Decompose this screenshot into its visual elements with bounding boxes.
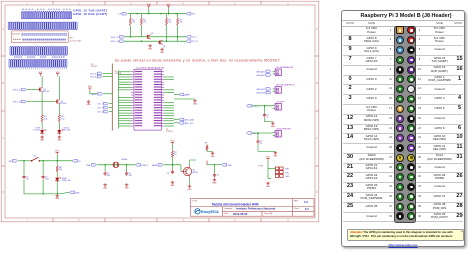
connector J3 40-pin box <box>11 31 68 43</box>
capacitor C4 <box>172 165 174 170</box>
MOSFET Q5 <box>38 89 39 91</box>
schematic sheet frame <box>1 1 319 222</box>
net flag ICP_1 <box>103 102 108 105</box>
svg-text:GND: GND <box>57 140 62 142</box>
net flag GEN_AD1 <box>266 70 271 73</box>
net flag VOL_B <box>97 72 102 75</box>
wire VCC to Q5 <box>41 76 43 87</box>
net flag PPS_1 <box>247 105 252 108</box>
svg-text:FTDI: FTDI <box>259 165 264 167</box>
net flag XTAL_2 <box>136 164 141 167</box>
header J8 pin 1 (3.3 VDC) <box>396 26 404 34</box>
net flag TTL_R right <box>186 40 191 43</box>
net flag 5V right <box>72 160 77 163</box>
svg-text:GEN_SD2: GEN_SD2 <box>256 93 265 95</box>
wire VIN to switch <box>18 160 30 162</box>
MCU pin stubs and names <box>131 71 134 73</box>
svg-text:10u: 10u <box>26 179 29 181</box>
net flag ADC_SCL <box>179 122 184 125</box>
net flag TTL right <box>186 12 191 15</box>
net flag VIN <box>13 160 18 163</box>
resistor R2 <box>140 17 142 26</box>
ground R9 <box>212 152 214 154</box>
svg-text:ADC_SDA: ADC_SDA <box>185 119 195 122</box>
wire base rail <box>164 164 181 166</box>
net flag GPIO_16 row <box>120 40 125 43</box>
svg-text:C: C <box>316 137 318 140</box>
net flag ICP_3 <box>103 110 108 113</box>
capacitor C7 <box>264 106 266 113</box>
capacitor C9 <box>206 161 208 165</box>
net flag AVCC <box>98 93 103 96</box>
header J8 pin 24 (GPIO 10) <box>407 134 415 142</box>
ground C8 <box>274 151 276 153</box>
header J8 pin 22 (GPIO 6) <box>407 124 415 132</box>
svg-text:S1: S1 <box>34 155 36 157</box>
net flag GEN_SD1 <box>266 88 271 91</box>
net flag GPIO_15 row <box>120 36 125 39</box>
header J8 pin 29 (GPIO 21) <box>396 163 404 171</box>
svg-text:REV:: REV: <box>294 201 299 203</box>
net flag BASE <box>158 164 163 167</box>
svg-text:ICP_1: ICP_1 <box>98 104 103 106</box>
header J8 pin 40 (GPIO 29) <box>407 212 415 220</box>
svg-text:PPS_1: PPS_1 <box>252 106 258 108</box>
net flag GEN_AD2 <box>266 74 271 77</box>
svg-text:GND: GND <box>55 198 60 200</box>
wire gate2 <box>27 101 55 103</box>
svg-text:GND: GND <box>40 140 45 142</box>
net flag TTL_T right <box>186 36 191 39</box>
header J8 pin 4 (5.0 VDC) <box>407 36 415 44</box>
svg-text:R9: R9 <box>205 143 207 145</box>
svg-text:GPIO_13: GPIO_13 <box>13 102 21 104</box>
connector bank row 1 (J1 pins) <box>22 12 23 19</box>
resistor R4 <box>176 17 178 26</box>
svg-text:1.0k: 1.0k <box>61 118 64 120</box>
row 3 under-labels <box>14 56 16 59</box>
ground mcu right <box>174 98 195 100</box>
header J8 pin 14 (Ground) <box>407 85 415 93</box>
svg-text:U5 GENERADOR: U5 GENERADOR <box>276 66 293 69</box>
MCU left pin wires <box>119 71 132 73</box>
header J8 pin 21 (GPIO 13) <box>396 124 404 132</box>
svg-text:VOL_A: VOL_A <box>90 76 97 79</box>
row 4 pin dots <box>9 67 12 70</box>
header J8 pin 33 (GPIO 23) <box>396 183 404 191</box>
header J8 pin 9 (Ground) <box>396 66 404 74</box>
MOSFET Q6 <box>55 101 56 103</box>
svg-text:GND: GND <box>285 176 290 178</box>
MOSFET Q3 <box>146 36 147 38</box>
svg-text:GPIO_16 RxD (UART): GPIO_16 RxD (UART) <box>73 12 107 16</box>
header J8 pin 38 (GPIO 28) <box>407 203 415 211</box>
header J8 pin 11 (GPIO 0) <box>396 75 404 83</box>
svg-text:1.0k: 1.0k <box>44 118 47 120</box>
net flag VOL_A <box>97 75 102 78</box>
connector bank row 3 (J4 pins) <box>10 47 11 56</box>
svg-text:Tarjeta microcontrolador AVR: Tarjeta microcontrolador AVR <box>212 202 260 206</box>
wire Q5 to R5 <box>41 92 43 114</box>
svg-text:10k: 10k <box>168 22 171 24</box>
svg-text:1n: 1n <box>267 117 269 119</box>
header J8 pin 35 (GPIO 24) <box>396 193 404 201</box>
svg-text:10k: 10k <box>143 22 146 24</box>
capacitor C1 <box>23 161 25 175</box>
header J8 pin 16 (GPIO 4) <box>407 95 415 103</box>
svg-text:33p: 33p <box>107 175 110 177</box>
ground Q3 <box>149 44 151 46</box>
svg-text:C: C <box>2 137 4 140</box>
svg-text:GND: GND <box>148 48 153 50</box>
svg-text:GPIO_16: GPIO_16 <box>111 41 119 43</box>
svg-text:D: D <box>316 191 318 194</box>
header J8 pin 31 (GPIO 22) <box>396 173 404 181</box>
frame section ticks <box>52 1 54 5</box>
header J8 pin 13 (GPIO 2) <box>396 85 404 93</box>
ground C7 <box>272 122 274 124</box>
header J8 pin 32 (GPIO 26) <box>407 173 415 181</box>
resistor R6 <box>58 114 60 123</box>
svg-text:GND: GND <box>271 126 276 128</box>
ground LED9 <box>41 135 43 137</box>
ground C5 <box>104 183 106 185</box>
svg-text:EasyEDA: EasyEDA <box>201 209 219 214</box>
header J8 pin 7 (GPIO 7) <box>396 56 404 64</box>
svg-text:GEN_SD1: GEN_SD1 <box>256 89 265 91</box>
resistor R8 <box>56 161 58 165</box>
svg-text:BASE: BASE <box>152 164 158 167</box>
net flag AREF <box>179 93 184 96</box>
MCU right pin wires <box>164 76 174 78</box>
header J8 pin 5 (GPIO 9) <box>396 46 404 54</box>
svg-text:PWR_LED: PWR_LED <box>62 180 71 182</box>
capacitor C6 <box>126 165 128 171</box>
header J8 pin 30 (Ground) <box>407 163 415 171</box>
svg-text:Se puede utilizar un diodo sol: Se puede utilizar un diodo solamente y u… <box>115 58 280 62</box>
capacitor C2 <box>42 161 44 175</box>
header J8 pin 37 (GPIO 25) <box>396 203 404 211</box>
header J8 pin 12 (GPIO 1) <box>407 75 415 83</box>
svg-text:Sheet:: Sheet: <box>294 207 300 210</box>
header J8 pin 10 (GPIO 16) <box>407 66 415 74</box>
ground Q1 <box>189 185 191 187</box>
resistor R1 <box>129 17 131 26</box>
net flag HAL_4 <box>247 132 252 135</box>
header J8 pin 27 (SDA0) <box>396 154 404 162</box>
ground LED10 <box>58 135 60 137</box>
svg-text:Conector 40T: Conector 40T <box>69 40 82 43</box>
transistor Q1 BC547 <box>183 167 191 175</box>
svg-text:Drawn By:: Drawn By: <box>264 212 273 215</box>
wires resistor bottoms <box>129 26 131 37</box>
connector bank top labels <box>22 8 24 11</box>
net flag GPIO_12 <box>22 88 27 91</box>
svg-text:XTAL: XTAL <box>86 164 91 167</box>
svg-text:HAL_4: HAL_4 <box>252 132 258 135</box>
svg-text:10k: 10k <box>180 22 183 24</box>
header J8 pin 19 (GPIO 12) <box>396 115 404 123</box>
header J8 pin 39 (Ground) <box>396 212 404 220</box>
header J6 FTDI 2x3 <box>275 167 278 170</box>
resistor R7 <box>172 145 174 150</box>
svg-text:Date:: Date: <box>224 212 229 215</box>
header J8 pin 17 (3.3 VDC) <box>396 105 404 113</box>
svg-text:GPIO_12: GPIO_12 <box>13 90 21 92</box>
svg-text:VOL_B: VOL_B <box>90 73 97 75</box>
title block frame <box>191 199 315 217</box>
ground ftdi <box>267 182 269 184</box>
header J8 pin 20 (Ground) <box>407 115 415 123</box>
net flag GEN_SD2 <box>266 91 271 94</box>
wire switch rail <box>40 160 73 162</box>
ground C6 <box>126 183 128 185</box>
wire row GPIO_16 <box>125 40 187 42</box>
EasyEDA logo <box>195 209 200 214</box>
svg-text:GND: GND <box>212 183 217 185</box>
svg-text:BC547: BC547 <box>193 172 199 174</box>
ground Q4 <box>161 48 163 50</box>
svg-text:Q4: Q4 <box>163 46 165 48</box>
svg-text:TTL_T: TTL_T <box>192 37 198 39</box>
svg-text:U8 ALTIMETRO: U8 ALTIMETRO <box>276 127 292 130</box>
wire xtal rail <box>97 164 135 166</box>
svg-text:GND: GND <box>211 156 216 158</box>
wire aux <box>207 164 222 166</box>
svg-text:XTAL_2: XTAL_2 <box>141 164 148 167</box>
net flag ADC_SDA <box>179 118 184 121</box>
header J8 pin 3 (GPIO 8) <box>396 36 404 44</box>
capacitor C5 <box>104 165 106 171</box>
header J8 pin 18 (GPIO 5) <box>407 105 415 113</box>
svg-text:BC7002: BC7002 <box>60 103 66 105</box>
connector bank row 2 (J2 pins) <box>8 22 9 30</box>
svg-text:C4: C4 <box>167 173 169 175</box>
bottom wire to ground <box>23 180 25 194</box>
wire Q6 to R6 <box>58 104 60 114</box>
ground C4 <box>172 181 174 183</box>
svg-text:GND: GND <box>227 165 232 167</box>
wire row GPIO_15 <box>125 36 187 38</box>
header J8 pin 34 (Ground) <box>407 183 415 191</box>
svg-text:Q3: Q3 <box>151 33 153 35</box>
svg-text:GND: GND <box>125 187 130 189</box>
ground C9 <box>213 178 215 180</box>
svg-text:ICP_3: ICP_3 <box>98 112 103 114</box>
header J8 pin 25 (Ground) <box>396 144 404 152</box>
header J8 pin 36 (GPIO 27) <box>407 193 415 201</box>
svg-text:TX_LED: TX_LED <box>33 129 40 131</box>
svg-text:GPIO_15: GPIO_15 <box>111 37 119 39</box>
svg-text:100n: 100n <box>45 179 49 181</box>
svg-text:16MHZ: 16MHZ <box>121 159 128 161</box>
svg-text:BC7002: BC7002 <box>43 91 49 93</box>
resistor R5 <box>41 114 43 123</box>
svg-text:Company:: Company: <box>224 208 233 210</box>
svg-text:10k: 10k <box>132 22 135 24</box>
net flag ICP_2 <box>103 106 108 109</box>
svg-text:TITLE:: TITLE: <box>192 200 198 202</box>
net flag GND right <box>70 191 75 194</box>
ground power rail <box>56 194 58 196</box>
resistor R3 <box>165 17 167 26</box>
svg-text:AREF: AREF <box>185 94 191 97</box>
header J8 pin 26 (GPIO 11) <box>407 144 415 152</box>
wire VCC to Q6 <box>58 76 60 99</box>
net flag TTL left <box>122 12 127 15</box>
wire VDD down <box>148 9 150 14</box>
svg-text:1.0: 1.0 <box>304 200 308 204</box>
svg-text:1/1: 1/1 <box>305 207 309 211</box>
header J8 pin 28 (SCL0) <box>407 154 415 162</box>
svg-text:GND: GND <box>75 192 80 194</box>
ground mcu left <box>88 100 90 102</box>
MOSFET Q4 <box>158 41 159 43</box>
svg-text:330: 330 <box>59 169 62 171</box>
wire gate1 <box>27 89 38 91</box>
svg-text:PORTD: PORTD <box>166 131 173 133</box>
net flag AUX <box>222 164 227 167</box>
svg-text:2019-08-02: 2019-08-02 <box>233 212 248 216</box>
wire top rail <box>128 13 186 15</box>
connector bank row 4 (J5 pins) <box>9 59 10 67</box>
wires resistor tops <box>129 14 131 17</box>
svg-text:D: D <box>2 191 4 194</box>
header J8 pin 23 (GPIO 14) <box>396 134 404 142</box>
svg-text:U1 TQFP32_ATMEGA328P-AU: U1 TQFP32_ATMEGA328P-AU <box>136 66 165 69</box>
svg-text:33p: 33p <box>129 175 132 177</box>
net flag GPIO_13 <box>22 100 27 103</box>
left vertical bus <box>111 64 113 131</box>
svg-text:ICP_2: ICP_2 <box>98 108 103 110</box>
svg-text:Instituto Politecnico Nacional: Instituto Politecnico Nacional <box>236 207 275 211</box>
header J8 pin 15 (GPIO 3) <box>396 95 404 103</box>
svg-text:GEN_AD2: GEN_AD2 <box>256 74 265 77</box>
svg-text:GND: GND <box>273 156 278 158</box>
wire VCC down <box>168 9 170 14</box>
header J8 pin 8 (GPIO 15) <box>407 56 415 64</box>
capacitor C8 <box>257 133 259 139</box>
svg-text:C9: C9 <box>216 175 218 177</box>
svg-text:RX_LED: RX_LED <box>64 129 72 131</box>
net flag XTAL_1 <box>92 164 97 167</box>
svg-text:AVCC: AVCC <box>92 93 98 96</box>
svg-text:1n: 1n <box>260 143 262 145</box>
svg-text:TTL_R: TTL_R <box>192 41 198 43</box>
header J8 pin 2 (5.0 VDC) <box>407 26 415 34</box>
svg-text:GND: GND <box>160 52 165 54</box>
svg-text:GEN_AD1: GEN_AD1 <box>256 70 265 73</box>
wires ftdi <box>267 161 269 168</box>
LED8 PWR_LED <box>56 173 58 177</box>
svg-text:ADC_SCL: ADC_SCL <box>185 122 194 125</box>
svg-text:GND: GND <box>103 187 108 189</box>
header J8 pin 6 (Ground) <box>407 46 415 54</box>
svg-text:PORTC: PORTC <box>91 66 98 68</box>
